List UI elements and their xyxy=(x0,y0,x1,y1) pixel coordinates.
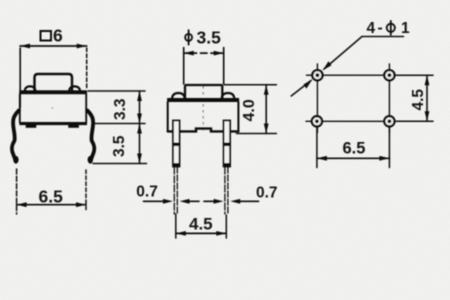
dim 6.5 bottom: dimension line xyxy=(17,204,86,206)
arrows at middle (up+down pair) xyxy=(137,114,142,124)
crosshair/connecting lines top row xyxy=(307,74,399,76)
left leg wide section (front) xyxy=(173,121,180,167)
dimension line for 6 (top) xyxy=(20,45,87,47)
crosshair/connecting line right column xyxy=(388,64,390,133)
svg-text:4: 4 xyxy=(367,20,376,37)
dim 6.5: dimension line xyxy=(317,157,390,159)
body left side (front) xyxy=(167,102,169,131)
extension line right of dim 6 (dotted) xyxy=(86,48,88,89)
bottom tab left xyxy=(26,125,37,128)
label square of "square 6" xyxy=(41,31,52,41)
body right side (front) xyxy=(237,102,239,131)
vertical dimension line 3.3/3.5 xyxy=(139,91,141,164)
body right side xyxy=(85,94,87,122)
svg-text:4.5: 4.5 xyxy=(189,215,213,234)
dim 4.5 (right view): extension top xyxy=(397,74,433,76)
crosshair/connecting lines bottom row xyxy=(306,120,399,122)
dims 3.3 / 3.5 right of left view: extension top xyxy=(88,90,145,92)
dim 6.5 arrows (right view) xyxy=(317,156,327,161)
body left side xyxy=(19,94,21,122)
left leg foot xyxy=(13,156,18,164)
dim 4.5: extension bottom xyxy=(397,120,433,122)
bump right (front) xyxy=(222,93,235,98)
arrow down at bottom xyxy=(137,154,142,164)
leader arrowhead lower (pointing up-right) xyxy=(304,79,313,88)
dim 4.0 arrows xyxy=(264,85,269,95)
right leg crimp band 1 xyxy=(223,143,230,147)
right leg (side view, S-bend) xyxy=(87,111,94,159)
dim 6.5 arrows xyxy=(17,202,27,207)
extension line left (down to button) xyxy=(183,48,185,85)
extension bottom xyxy=(93,163,147,165)
svg-text:1: 1 xyxy=(401,20,410,37)
left leg thin tip lines xyxy=(173,167,175,214)
dim 0.7 left inner arrow xyxy=(189,200,199,202)
extension line right (down to button) xyxy=(223,48,225,85)
crosshair/connecting line left column xyxy=(316,64,318,133)
svg-text:4.5: 4.5 xyxy=(410,89,427,111)
dim line phi3.5 xyxy=(184,52,224,54)
bump left (front) xyxy=(172,93,185,98)
svg-text:3.5: 3.5 xyxy=(111,135,128,157)
right leg wide section (front) xyxy=(224,121,231,167)
left leg (side view, S-bend) xyxy=(12,111,19,159)
left leg crimp band 2 xyxy=(173,163,180,167)
body bottom line with center step xyxy=(168,129,239,132)
dim 6.5 bottom: extension line left xyxy=(16,169,18,214)
svg-text:0.7: 0.7 xyxy=(136,184,158,201)
dim 4.5: extension right xyxy=(225,215,227,238)
body top band xyxy=(19,90,87,94)
button plunger (front view) xyxy=(185,85,222,98)
right leg foot xyxy=(88,156,93,164)
svg-text:3.5: 3.5 xyxy=(197,27,222,47)
dim 4.5: dimension line xyxy=(176,232,227,234)
arrows phi3.5 xyxy=(184,51,194,56)
body top band (front) xyxy=(167,98,239,102)
dim 4.0: extension bottom xyxy=(236,133,276,135)
svg-text:6.5: 6.5 xyxy=(39,187,64,207)
svg-text:6.5: 6.5 xyxy=(343,140,366,158)
leader arrowhead at hole (pointing down-left) xyxy=(323,61,332,70)
left leg crimp band 1 xyxy=(173,143,180,147)
extension middle xyxy=(94,123,145,125)
arrow left of dim 6 xyxy=(20,44,30,49)
arrow right of dim 6 xyxy=(77,44,87,49)
dim 0.7 right inner arrow xyxy=(204,200,214,202)
dim 0.7 left outer arrow xyxy=(144,200,165,202)
dim 4.5 (middle bottom): extension left xyxy=(175,214,177,238)
svg-text:3.3: 3.3 xyxy=(112,98,129,120)
phi symbol of 4-phi1 xyxy=(387,24,395,32)
leader underline xyxy=(362,36,404,38)
dim 6.5: extension right xyxy=(388,128,390,168)
svg-text:0.7: 0.7 xyxy=(256,185,278,202)
hole top-left xyxy=(312,70,322,80)
top-right bump xyxy=(69,86,80,90)
hole top-right xyxy=(384,70,394,80)
leader line upper segment xyxy=(324,37,362,70)
dim 4.5: vertical dimension line xyxy=(426,75,428,121)
arrow up at top xyxy=(137,91,142,101)
svg-text:6: 6 xyxy=(53,26,63,46)
right leg crimp band 2 xyxy=(223,163,230,167)
dim 6.5 bottom: extension line right xyxy=(85,170,87,212)
svg-text:-: - xyxy=(378,20,383,37)
phi symbol of phi3.5 xyxy=(185,34,192,41)
dim 4.5 arrows xyxy=(176,231,186,236)
top-left bump xyxy=(25,86,36,90)
extension line left of dim 6 xyxy=(19,48,21,107)
faint speck left view center xyxy=(52,107,54,109)
dim 0.7 right outer arrow xyxy=(240,200,259,202)
button plunger (side view) xyxy=(35,74,73,90)
bottom tab right xyxy=(68,125,79,128)
leader lower segment xyxy=(291,81,311,97)
dim 4.5 arrows (right view) xyxy=(425,75,430,85)
right leg thin tip lines xyxy=(224,167,226,214)
dim 4.0: extension top xyxy=(224,84,276,86)
body bottom band xyxy=(19,122,87,125)
dim 4.0: vertical dimension line xyxy=(265,85,267,134)
hole bottom-right xyxy=(384,116,394,126)
hole bottom-left xyxy=(312,116,322,126)
svg-text:4.0: 4.0 xyxy=(241,99,258,121)
dim 6.5 (right view): extension left xyxy=(316,128,318,168)
centerline (faint, middle view) xyxy=(202,87,204,131)
